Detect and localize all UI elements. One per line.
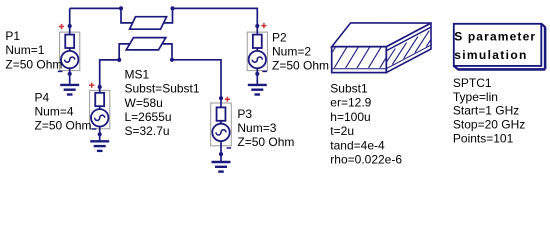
svg-text:Stop=20 GHz: Stop=20 GHz xyxy=(453,118,525,132)
coupled microstrip MS1 line A xyxy=(130,17,167,30)
label P4 xyxy=(35,90,92,132)
svg-text:S parameter: S parameter xyxy=(454,29,536,43)
svg-text:P4: P4 xyxy=(35,90,50,104)
port P4 xyxy=(89,83,110,137)
S parameter simulation box SPTC1 xyxy=(454,24,546,70)
wire over to P3 xyxy=(172,60,221,98)
label Subst1 xyxy=(330,82,402,167)
svg-text:MS1: MS1 xyxy=(125,68,150,82)
ground of P1 xyxy=(60,78,79,95)
svg-text:tand=4e-4: tand=4e-4 xyxy=(330,138,385,152)
svg-text:Z=50 Ohm: Z=50 Ohm xyxy=(5,57,62,71)
svg-text:Z=50 Ohm: Z=50 Ohm xyxy=(237,135,294,149)
svg-text:Num=3: Num=3 xyxy=(237,121,276,135)
label P2 xyxy=(272,30,329,72)
ground of P4 xyxy=(90,134,109,151)
port P3 (mirrored) xyxy=(211,96,232,156)
coupled microstrip MS1 line B xyxy=(126,38,166,50)
ground of P3 xyxy=(212,155,231,172)
node junction xyxy=(170,6,174,10)
svg-text:simulation: simulation xyxy=(454,48,528,62)
svg-text:Start=1 GHz: Start=1 GHz xyxy=(453,104,519,118)
label P1 xyxy=(5,29,62,71)
substrate Subst1 3D slab xyxy=(322,23,440,73)
svg-text:Subst1: Subst1 xyxy=(330,82,368,96)
svg-text:P2: P2 xyxy=(272,30,287,44)
svg-text:W=58u: W=58u xyxy=(125,96,163,110)
svg-text:t=2u: t=2u xyxy=(330,124,354,138)
wire top rail right xyxy=(173,8,258,26)
svg-text:SPTC1: SPTC1 xyxy=(453,76,492,90)
node junction xyxy=(119,6,123,10)
svg-text:h=100u: h=100u xyxy=(330,110,370,124)
wire top rail left xyxy=(70,7,121,9)
label SPTC1 xyxy=(453,76,525,145)
node junction xyxy=(117,58,121,62)
port P1 xyxy=(58,24,80,78)
svg-text:er=12.9: er=12.9 xyxy=(330,96,371,110)
svg-text:Num=1: Num=1 xyxy=(5,43,44,57)
wire up to MS1 port4 xyxy=(119,44,129,60)
svg-text:P3: P3 xyxy=(237,107,252,121)
svg-text:Type=lin: Type=lin xyxy=(453,90,498,104)
svg-text:P1: P1 xyxy=(5,29,20,43)
svg-text:rho=0.022e-6: rho=0.022e-6 xyxy=(330,152,402,166)
wire down to MS1 port1 xyxy=(121,8,132,23)
wire MS1 port3 lead xyxy=(162,44,172,60)
svg-text:L=2655u: L=2655u xyxy=(125,110,172,124)
svg-text:Z=50 Ohm: Z=50 Ohm xyxy=(35,119,92,133)
wire P1 vertical to top rail xyxy=(69,8,71,26)
node junction xyxy=(170,58,174,62)
port P2 (mirrored) xyxy=(247,23,267,78)
ground of P2 xyxy=(248,78,267,95)
wire P4 up and over xyxy=(100,60,120,87)
svg-text:Points=101: Points=101 xyxy=(453,131,514,145)
svg-text:Subst=Subst1: Subst=Subst1 xyxy=(125,82,200,96)
svg-text:Num=2: Num=2 xyxy=(272,45,311,59)
svg-text:S=32.7u: S=32.7u xyxy=(125,124,170,138)
svg-text:Num=4: Num=4 xyxy=(35,105,74,119)
label MS1 xyxy=(125,68,200,138)
svg-text:Z=50 Ohm: Z=50 Ohm xyxy=(272,59,329,73)
wire MS1 port2 lead xyxy=(164,8,173,23)
label P3 xyxy=(237,107,294,149)
